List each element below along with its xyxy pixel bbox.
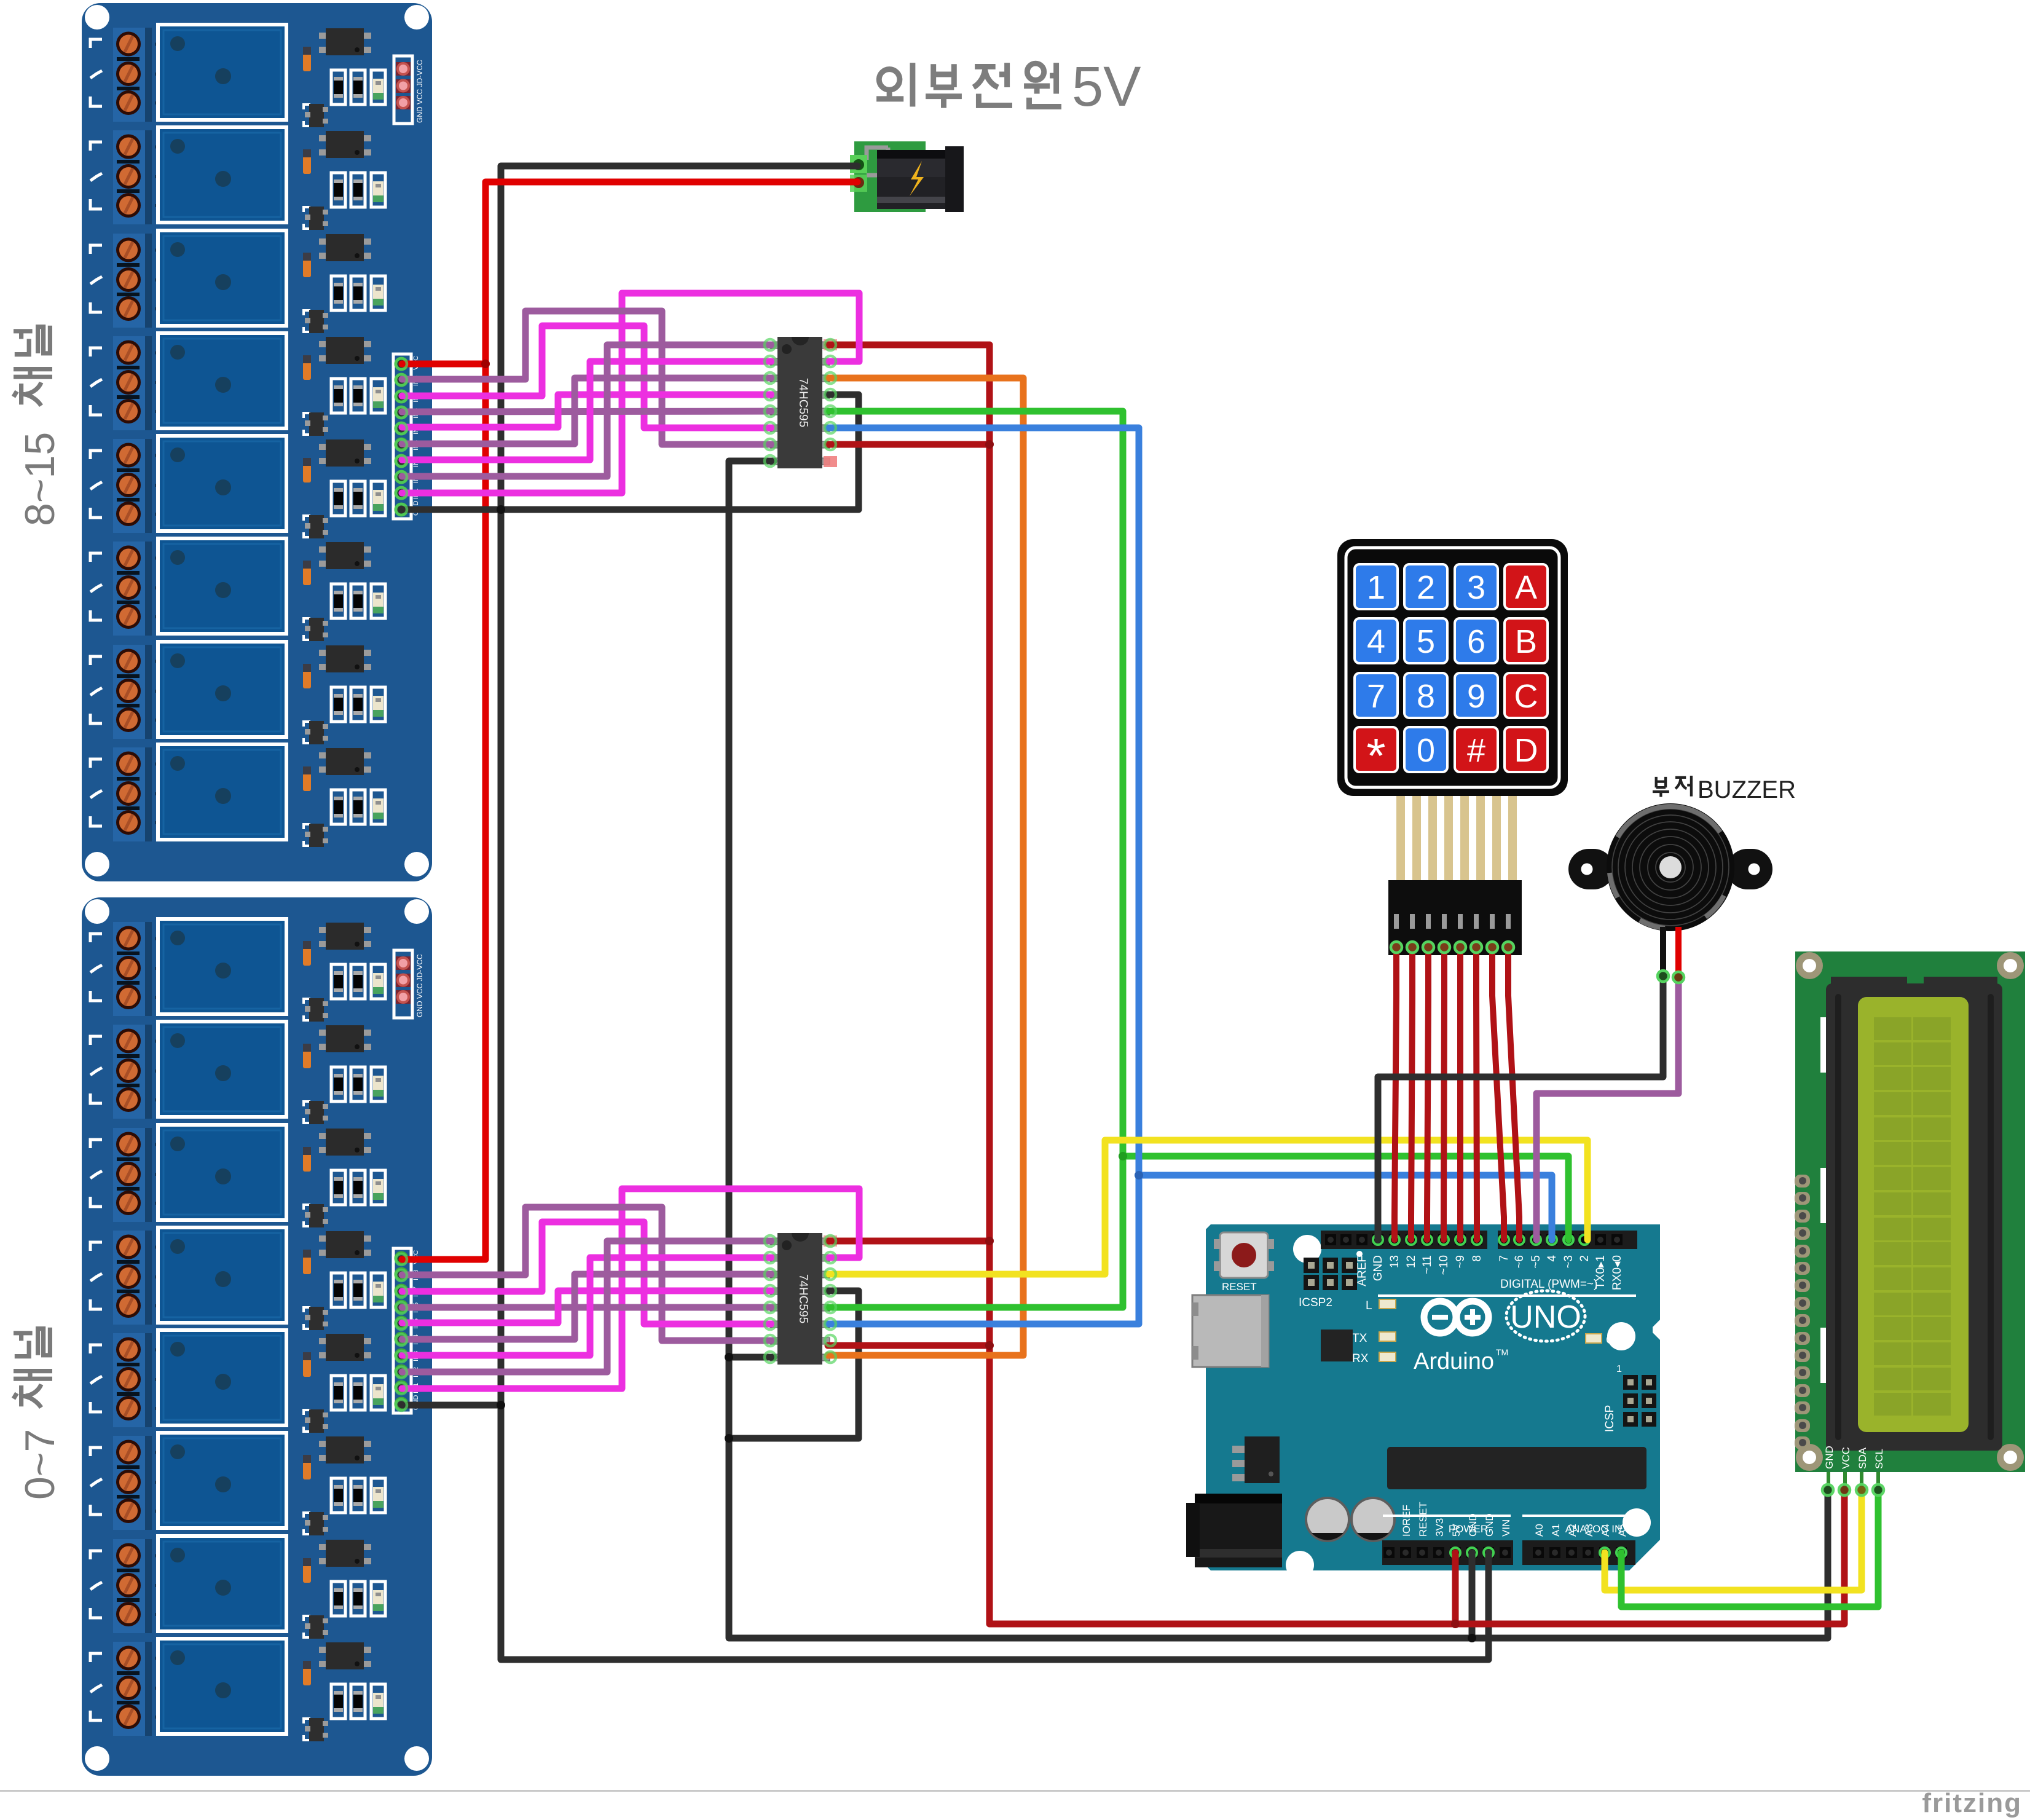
wire red U2 pin16 stub xyxy=(828,1238,989,1245)
svg-text:~11: ~11 xyxy=(1421,1255,1434,1274)
keypad header pads xyxy=(1391,942,1514,953)
wire red VCC rail to Arduino 5V and LCD VCC xyxy=(989,345,1844,1624)
wire red U1 pin10 stub xyxy=(828,441,989,448)
svg-text:5: 5 xyxy=(1417,623,1435,660)
LCD wire pad xyxy=(1873,1484,1884,1495)
svg-text:SDA: SDA xyxy=(1857,1447,1868,1469)
wire magenta relay board2 IN7 to shift register xyxy=(402,326,774,428)
wire red keypad row/col 7 to Arduino D7 xyxy=(1492,951,1504,1240)
wire black relay1 GND to 74HC595 U1 pin13 xyxy=(402,395,859,510)
connection pads (green rings) xyxy=(396,339,836,1411)
svg-text:2: 2 xyxy=(1417,569,1435,606)
svg-text:12: 12 xyxy=(1405,1255,1418,1268)
wire magenta relay board1 IN3 to shift register xyxy=(402,1258,774,1355)
junction red VCC net xyxy=(985,440,994,449)
junction blue xyxy=(1135,1171,1143,1180)
LCD wire pad xyxy=(1839,1484,1850,1495)
wire purple relay board1 IN6 to shift register xyxy=(402,1304,774,1311)
svg-text:A0: A0 xyxy=(1533,1524,1545,1537)
LCD1602 display (I2C) xyxy=(1795,951,2025,1490)
wire black U2 pin8 stub xyxy=(729,1354,774,1361)
junction green xyxy=(1119,1152,1127,1160)
svg-text:2: 2 xyxy=(1578,1255,1591,1262)
wire magenta relay board2 IN3 to shift register xyxy=(402,361,774,460)
svg-text:UNO: UNO xyxy=(1510,1299,1581,1335)
wire magenta U1 pin15 to relay1 IN1 xyxy=(402,293,859,493)
wire red keypad row/col 1 to Arduino D13 xyxy=(1395,951,1396,1240)
svg-text:*: * xyxy=(1366,728,1385,783)
wire black ground rail U1 pin8 to LCD GND xyxy=(729,461,1828,1638)
keypad ribbon cable xyxy=(1390,796,1524,880)
svg-text:Arduino: Arduino xyxy=(1414,1349,1494,1374)
svg-text:4: 4 xyxy=(1367,623,1385,660)
label 부저BUZZER xyxy=(1653,776,1796,803)
svg-text:VCC: VCC xyxy=(1840,1447,1852,1469)
keypad 8-pin header xyxy=(1388,880,1522,955)
wire purple relay board1 IN8 to shift register xyxy=(402,1207,774,1341)
wire black relay2 GND stub xyxy=(402,1402,501,1409)
wire purple relay board2 IN6 to shift register xyxy=(402,411,774,412)
svg-text:VIN: VIN xyxy=(1500,1519,1512,1537)
DC barrel jack J1 (external 5V) xyxy=(850,141,964,212)
wire purple relay board2 IN8 to shift register xyxy=(402,311,774,444)
junction black GND1 xyxy=(1468,1634,1476,1642)
U1 pin16 pad xyxy=(824,339,837,350)
svg-text:A: A xyxy=(1515,569,1537,606)
svg-text:L: L xyxy=(1366,1299,1372,1312)
wire purple buzzer positive to Arduino D5 xyxy=(1536,977,1678,1240)
svg-text:ICSP2: ICSP2 xyxy=(1299,1296,1332,1309)
svg-text:6: 6 xyxy=(1467,623,1485,660)
svg-text:0~7: 0~7 xyxy=(17,1429,63,1500)
shift register U1 74HC595 xyxy=(770,337,830,468)
svg-text:TX: TX xyxy=(1352,1332,1367,1345)
fritzing watermark xyxy=(1922,1788,2022,1818)
canvas separator line xyxy=(0,1790,2030,1792)
svg-text:~9: ~9 xyxy=(1454,1255,1467,1269)
wire red stub relay1 VCC xyxy=(402,361,486,368)
svg-text:~3: ~3 xyxy=(1562,1255,1575,1269)
wire purple relay board2 IN2 to shift register xyxy=(402,345,774,476)
buzzer BZ1 xyxy=(1568,803,1772,977)
svg-text:4: 4 xyxy=(1546,1255,1559,1262)
Arduino UNO board xyxy=(1186,1224,1660,1579)
svg-text:13: 13 xyxy=(1388,1255,1401,1268)
svg-text:RESET: RESET xyxy=(1222,1281,1257,1293)
svg-text:ON: ON xyxy=(1606,1334,1624,1347)
label 외부전원5V (external power 5V) xyxy=(876,55,1141,118)
wire green U2 pin12 stub xyxy=(828,1156,1123,1307)
svg-text:~5: ~5 xyxy=(1530,1255,1543,1269)
svg-text:RX: RX xyxy=(1352,1352,1369,1365)
wire black stub Arduino GND1 xyxy=(1469,1553,1476,1638)
wire green LCD SCL to Arduino A5 xyxy=(1621,1490,1878,1607)
svg-text:IOREF: IOREF xyxy=(1401,1505,1412,1537)
LCD wire pad xyxy=(1856,1484,1867,1495)
wire magenta relay board1 IN5 to shift register xyxy=(402,1291,774,1323)
svg-text:TM: TM xyxy=(1496,1347,1508,1357)
junction red VCC net xyxy=(985,1341,994,1350)
wire yellow data U2 pin14 to Arduino D2 xyxy=(828,1140,1587,1274)
svg-text:8~15: 8~15 xyxy=(17,432,63,526)
svg-text:#: # xyxy=(1467,732,1485,769)
svg-text:8: 8 xyxy=(1417,678,1435,715)
junction black U2 pin13 xyxy=(725,1434,733,1443)
wire green shift clock U1.12/U2.12 to Arduino D3 xyxy=(828,411,1568,1240)
wire blue latch U1.11/U2.11 to Arduino D4 xyxy=(828,428,1552,1240)
wire black buzzer negative to Arduino GND xyxy=(1378,974,1663,1240)
svg-text:POWER: POWER xyxy=(1449,1523,1488,1535)
svg-text:3V3: 3V3 xyxy=(1434,1518,1446,1537)
wire magenta U2 pin15 to relay2 IN1 xyxy=(402,1189,859,1389)
wire red keypad row/col 5 to Arduino D9 xyxy=(1457,951,1463,1240)
junction black relay2 GND xyxy=(497,1401,505,1409)
svg-text:GND: GND xyxy=(1372,1255,1385,1281)
wire magenta relay board1 IN7 to shift register xyxy=(402,1222,774,1324)
svg-text:AREF: AREF xyxy=(1356,1255,1369,1286)
svg-text:SCL: SCL xyxy=(1873,1449,1885,1469)
wire red keypad row/col 2 to Arduino D12 xyxy=(1411,951,1412,1240)
svg-text:7: 7 xyxy=(1498,1255,1511,1262)
keypad 4x4 matrix xyxy=(1337,539,1568,796)
wire magenta relay board2 IN5 to shift register xyxy=(402,395,774,427)
svg-text:9: 9 xyxy=(1467,678,1485,715)
label 0~7채널 (channels 0-7) xyxy=(14,1328,63,1500)
svg-text:1: 1 xyxy=(1367,569,1385,606)
wire black 74HC595 U2 pin13 to ground rail xyxy=(729,1291,859,1438)
svg-text:fritzing: fritzing xyxy=(1922,1788,2022,1818)
wire red power from DC jack to relay VCC rail xyxy=(402,182,857,1259)
wire black power from DC jack to Arduino GND xyxy=(501,166,1489,1660)
U1 pin9 pad xyxy=(824,456,837,467)
svg-text:0: 0 xyxy=(1417,732,1435,769)
svg-text:7: 7 xyxy=(1367,678,1385,715)
svg-text:~6: ~6 xyxy=(1513,1255,1526,1269)
wire red keypad row/col 4 to Arduino D10 xyxy=(1444,951,1444,1240)
svg-text:C: C xyxy=(1514,678,1538,715)
U2 pin16 pad xyxy=(824,1235,837,1247)
junction black U2 pin8 xyxy=(725,1353,733,1361)
junction jack-red / relay1 VCC xyxy=(481,360,490,368)
relay module board K1 (channels 0~7) xyxy=(82,897,432,1776)
svg-text:RX0◂0: RX0◂0 xyxy=(1611,1255,1624,1290)
wire red stub Arduino 5V xyxy=(1452,1553,1459,1624)
buzzer wire pads xyxy=(1658,971,1684,983)
shift register U2 74HC595 xyxy=(770,1233,830,1365)
relay module board K2 (channels 8~15) xyxy=(82,3,432,881)
svg-text:B: B xyxy=(1515,623,1537,660)
svg-text:RESET: RESET xyxy=(1417,1502,1429,1537)
wire red U2 pin10 stub xyxy=(828,1342,989,1349)
svg-text:GND: GND xyxy=(1823,1446,1835,1469)
svg-text:BUZZER: BUZZER xyxy=(1698,776,1796,803)
svg-text:A1: A1 xyxy=(1550,1524,1562,1537)
junction red VCC net xyxy=(1451,1620,1460,1628)
svg-text:D: D xyxy=(1514,732,1538,769)
junction black relay1 GND xyxy=(497,505,505,514)
svg-text:5V: 5V xyxy=(1072,55,1141,118)
wire purple relay board1 IN2 to shift register xyxy=(402,1241,774,1372)
svg-text:ICSP: ICSP xyxy=(1603,1405,1616,1432)
wire purple relay board1 IN4 to shift register xyxy=(402,1274,774,1339)
svg-text:DIGITAL (PWM=~): DIGITAL (PWM=~) xyxy=(1500,1278,1597,1291)
LCD wire pad xyxy=(1822,1484,1833,1495)
svg-text:8: 8 xyxy=(1471,1255,1484,1262)
label 8~15채널 (channels 8-15) xyxy=(14,326,63,526)
wire red keypad row/col 6 to Arduino D8 xyxy=(1476,951,1477,1240)
svg-text:1: 1 xyxy=(1616,1364,1622,1374)
junction red VCC net xyxy=(985,1237,994,1245)
svg-text:~10: ~10 xyxy=(1438,1255,1450,1275)
wire blue U2 pin11 stub xyxy=(828,1175,1139,1324)
wire orange U1 pin14 to U2 pin9 xyxy=(828,378,1023,1355)
svg-text:3: 3 xyxy=(1467,569,1485,606)
wire yellow LCD SDA to Arduino A4 xyxy=(1605,1490,1862,1590)
svg-text:ANALOG IN: ANALOG IN xyxy=(1565,1523,1623,1535)
wire red keypad row/col 8 to Arduino D6 xyxy=(1508,951,1519,1240)
wire red U1 pin16 stub xyxy=(828,342,989,349)
wire purple relay board2 IN4 to shift register xyxy=(402,378,774,444)
wire red keypad row/col 3 to Arduino D11 xyxy=(1427,951,1428,1240)
